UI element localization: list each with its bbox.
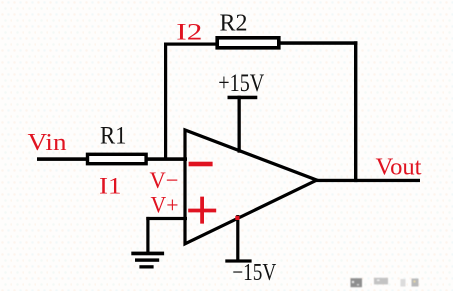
junction dot (red) at -15V tap on op-amp edge xyxy=(235,216,239,220)
wire: feedback vertical (right, down to output) xyxy=(354,41,357,182)
wire: R2 to right feedback corner xyxy=(280,41,357,45)
watermark xyxy=(351,278,419,287)
svg-text:R2: R2 xyxy=(220,11,248,37)
wire: R1 to inverting input xyxy=(146,157,187,161)
op-amp inverting marking (minus) xyxy=(189,162,213,167)
svg-text:+15V: +15V xyxy=(218,70,264,97)
wire: +15V supply to op-amp top xyxy=(238,96,241,153)
svg-text:Vout: Vout xyxy=(376,155,422,181)
op-amp non-inverting marking (plus) xyxy=(188,197,216,224)
terminal bar +15V xyxy=(228,96,258,100)
terminal bar -15V xyxy=(225,259,251,262)
svg-text:V+: V+ xyxy=(151,193,179,218)
wire: output xyxy=(314,179,420,182)
svg-text:Vin: Vin xyxy=(28,130,67,156)
svg-text:I1: I1 xyxy=(99,174,122,200)
resistor R1 xyxy=(88,154,147,163)
op-amp U1 xyxy=(185,130,317,244)
svg-text:−15V: −15V xyxy=(232,260,277,286)
wire: op-amp bottom to -15V supply xyxy=(236,215,239,261)
svg-text:I2: I2 xyxy=(176,20,202,46)
svg-text:R1: R1 xyxy=(100,123,127,150)
wire: feedback vertical (left, node to top) xyxy=(164,43,167,160)
wire: top run from corner to R2 xyxy=(164,43,216,46)
wire: drop to ground xyxy=(146,217,149,253)
resistor R2 xyxy=(217,38,279,48)
svg-text:V−: V− xyxy=(150,168,179,194)
ground xyxy=(131,252,164,269)
wire: input from Vin to R1 xyxy=(37,157,87,161)
wire: non-inverting input xyxy=(146,217,187,220)
